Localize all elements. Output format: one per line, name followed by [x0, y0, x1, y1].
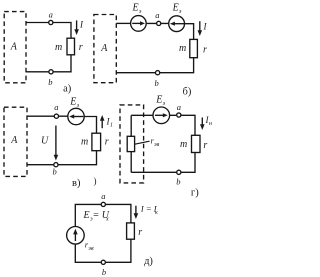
svg-text:х: х: [105, 216, 109, 222]
svg-text:r: r: [138, 227, 142, 238]
svg-text:э: э: [163, 101, 166, 107]
wire between sources (circuit b): [146, 22, 169, 24]
dashed box (circuit g): [120, 105, 144, 183]
network A dashed box (circuit v): [4, 107, 27, 176]
resistor r (circuit b): [190, 39, 198, 57]
wire bottom (circuit g): [131, 153, 195, 173]
wire top left (circuit b): [116, 22, 130, 24]
svg-text:U: U: [41, 136, 49, 147]
resistor r (circuit g): [192, 135, 201, 152]
svg-text:Е: Е: [155, 95, 162, 106]
svg-text:Е: Е: [83, 210, 90, 221]
svg-text:b: b: [155, 78, 159, 88]
svg-text:a: a: [54, 102, 58, 112]
svg-text:н: н: [209, 121, 212, 127]
svg-text:a: a: [101, 191, 105, 201]
wire right (circuit b): [185, 24, 194, 40]
wire top (circuit g): [131, 114, 153, 116]
wire left bottom (circuit g): [130, 152, 132, 173]
svg-text:a: a: [49, 10, 53, 20]
svg-text:m: m: [55, 42, 62, 53]
svg-text:b: b: [53, 167, 57, 177]
svg-text:m: m: [179, 43, 186, 54]
svg-text:): ): [94, 176, 97, 186]
svg-text:A: A: [10, 42, 18, 53]
EMF source E_ekv (circuit d): [67, 227, 85, 245]
wire bottom (circuit v): [27, 151, 97, 165]
resistor r_ekv (circuit g): [127, 136, 134, 151]
svg-text:к: к: [155, 210, 158, 216]
terminal b (circuit b): [156, 71, 160, 75]
wire loop top (circuit d): [75, 204, 131, 226]
wire top (circuit a): [26, 23, 71, 39]
terminal b (circuit d): [101, 260, 105, 264]
svg-text:A: A: [10, 135, 18, 146]
resistor r (circuit a): [67, 38, 75, 55]
network A dashed box (circuit b): [94, 15, 116, 83]
svg-text:r: r: [203, 45, 207, 56]
svg-text:в): в): [72, 178, 81, 189]
svg-text:1: 1: [110, 123, 113, 129]
svg-text:г): г): [191, 188, 199, 199]
svg-text:b: b: [102, 267, 106, 277]
svg-text:b: b: [48, 77, 52, 87]
wire source to corner (circuit g): [170, 115, 195, 135]
terminal a (circuit a): [49, 20, 53, 24]
EMF source E1 (circuit b): [131, 16, 147, 32]
current arrow I1 up (circuit v): [100, 115, 105, 128]
resistor r (circuit d): [127, 223, 135, 239]
wire bottom (circuit a): [26, 55, 71, 72]
current arrow I (circuit b): [198, 21, 203, 36]
svg-text:m: m: [180, 139, 187, 150]
voltage arrow U (circuit v): [54, 126, 59, 161]
terminal b (circuit g): [177, 170, 181, 174]
svg-text:Е: Е: [69, 97, 76, 108]
current arrow I (circuit g): [200, 118, 205, 131]
EMF source E (circuit g): [153, 107, 170, 124]
wire bottom (circuit b): [116, 58, 193, 73]
svg-text:а): а): [63, 84, 72, 95]
svg-text:э: э: [139, 9, 142, 15]
current arrow I (circuit a): [74, 20, 79, 35]
wire right (circuit v): [84, 117, 96, 134]
resistor r (circuit v): [92, 133, 101, 151]
svg-text:б): б): [183, 87, 192, 98]
svg-text:Е: Е: [132, 3, 139, 14]
network A dashed box (circuit a): [4, 12, 26, 83]
leader line to r_ekv label (circuit g): [135, 141, 150, 144]
EMF source E2 (circuit b): [169, 16, 185, 32]
svg-text:д): д): [144, 256, 153, 267]
terminal b (circuit v): [54, 163, 58, 167]
terminal b (circuit a): [49, 70, 53, 74]
terminal a (circuit g): [177, 113, 181, 117]
svg-text:b: b: [176, 177, 180, 187]
wire top (circuit v): [27, 115, 68, 117]
svg-text:э: э: [77, 103, 80, 109]
svg-text:э: э: [179, 9, 182, 15]
wire left internal (circuit g): [130, 115, 132, 136]
terminal a (circuit v): [54, 114, 58, 118]
current arrow I (circuit d): [134, 206, 139, 219]
svg-text:a: a: [177, 102, 181, 112]
EMF source E (circuit v): [68, 108, 84, 124]
terminal a (circuit b): [157, 21, 161, 25]
svg-text:r: r: [79, 42, 83, 53]
svg-text:A: A: [100, 43, 108, 54]
svg-text:r: r: [105, 137, 109, 148]
svg-text:m: m: [81, 137, 88, 148]
svg-text:эв: эв: [88, 246, 94, 252]
svg-text:r: r: [203, 140, 207, 151]
svg-text:a: a: [155, 10, 159, 20]
svg-text:Е: Е: [172, 3, 179, 14]
svg-text:эв: эв: [154, 142, 160, 148]
wire loop bottom (circuit d): [75, 239, 131, 262]
terminal a (circuit d): [101, 202, 105, 206]
